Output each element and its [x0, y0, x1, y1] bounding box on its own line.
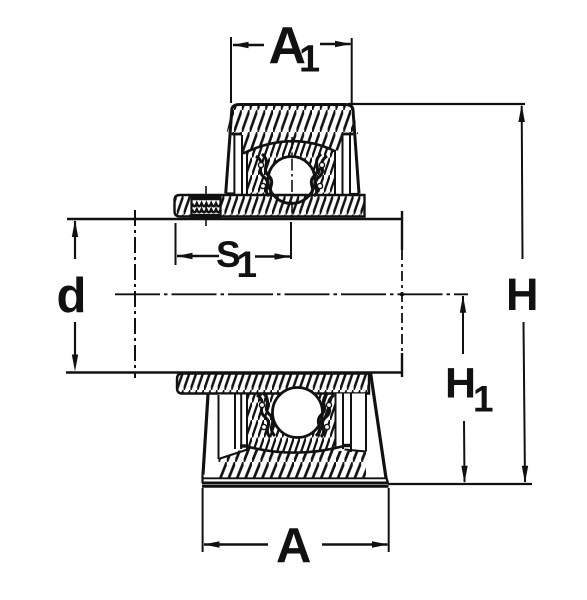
- svg-text:H: H: [445, 360, 476, 408]
- bearing spherical seat arc top: [243, 141, 336, 153]
- dimension A arrow right: [322, 541, 388, 547]
- svg-text:1: 1: [237, 244, 258, 285]
- bottom housing right outer wall: [371, 373, 387, 479]
- dimension H1 arrow bottom: [461, 466, 467, 484]
- bottom rib diagonal right: [345, 450, 367, 452]
- shaft right end line: [401, 211, 403, 377]
- dimension H1 arrow top: [460, 295, 466, 313]
- dimension S1 extension line right: [290, 222, 292, 259]
- top housing cap outline: [226, 105, 359, 194]
- dimension H arrow bottom: [522, 466, 528, 484]
- cage squiggles top-left: [256, 154, 274, 196]
- bottom housing interior hatch (outer ring + base): [248, 394, 344, 453]
- shaft top line: [67, 218, 403, 220]
- svg-text:1: 1: [473, 379, 494, 420]
- dimension H1 line upper: [462, 296, 464, 354]
- bearing center line top: [291, 137, 293, 222]
- label S1: [216, 234, 257, 285]
- dimension A1 arrow left: [233, 42, 265, 48]
- dimension d arrow line: [72, 220, 78, 372]
- bottom seal strips right: [335, 394, 366, 453]
- dimension A1 extension line right: [351, 38, 353, 103]
- bottom inner ring collar band: [177, 374, 369, 394]
- shaft center line (horizontal dash-dot): [115, 293, 468, 295]
- inner ring collar band top: [175, 195, 365, 217]
- bottom housing right foot: [387, 478, 389, 483]
- dimension S1 extension line left: [175, 223, 177, 265]
- dimension A arrow left: [204, 541, 269, 547]
- top extension line (housing top to H): [348, 103, 525, 105]
- dimension H arrow top: [518, 105, 525, 123]
- cage squiggles bottom-left: [257, 393, 275, 437]
- set screw collar (knurled): [192, 197, 221, 218]
- dimension A1 extension line left: [230, 37, 232, 103]
- bottom rib diagonal left: [219, 450, 248, 460]
- dimension A1 arrow right: [320, 41, 351, 47]
- dimension A extension line left: [202, 488, 204, 552]
- bearing seal strip top-left: [232, 133, 247, 195]
- svg-text:A: A: [276, 519, 311, 573]
- shaft bottom line: [66, 371, 403, 373]
- cage squiggles bottom-right: [316, 393, 334, 437]
- ball bottom: [273, 388, 323, 438]
- top housing left wall bottom face: [226, 192, 240, 194]
- svg-text:d: d: [57, 269, 87, 323]
- base upper line: [203, 477, 387, 479]
- top housing right wall bottom face: [344, 193, 359, 195]
- ball top: [268, 157, 315, 204]
- bottom seal strips left: [219, 395, 249, 460]
- dimension S1 arrow right: [255, 253, 291, 259]
- bottom housing left foot: [201, 475, 203, 484]
- top housing cap hatch: [226, 105, 358, 154]
- dimension H line lower: [524, 322, 526, 482]
- label A1: [269, 17, 321, 81]
- cage squiggles top-right: [309, 154, 327, 196]
- dimension A extension line right: [388, 488, 390, 552]
- dimension H1 line lower: [463, 421, 466, 482]
- set screw center line: [205, 186, 207, 226]
- dimension H line upper: [521, 106, 524, 259]
- bearing seal strip top-right: [335, 133, 353, 195]
- baseline extension (to H and H1): [388, 483, 532, 485]
- bearing spherical seat arc bottom: [247, 446, 344, 453]
- label H1: [445, 360, 494, 420]
- dimension S1 arrow left: [177, 253, 220, 259]
- bottom housing left outer wall: [203, 395, 208, 475]
- center line junction dot: [400, 292, 404, 296]
- base bottom edge: [202, 483, 389, 486]
- svg-text:1: 1: [299, 39, 320, 81]
- shaft left break line (dash-dot): [134, 210, 136, 378]
- svg-text:H: H: [506, 269, 539, 320]
- bearing outer ring top hatch: [243, 141, 336, 195]
